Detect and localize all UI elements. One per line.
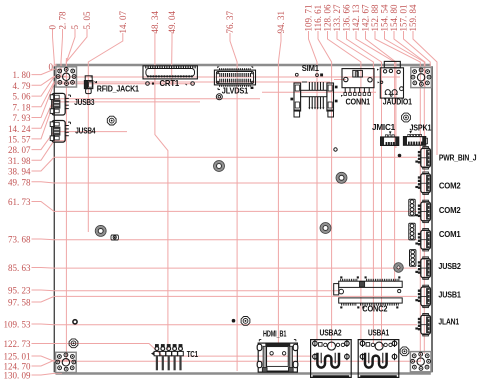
dimension line 0 (top) xyxy=(53,29,55,65)
connector COM1 xyxy=(416,229,431,251)
svg-text:USBA1: USBA1 xyxy=(368,329,389,338)
svg-text:CONN1: CONN1 xyxy=(346,98,371,107)
svg-text:HDMI_B1: HDMI_B1 xyxy=(263,330,287,339)
screw nut N4 xyxy=(400,347,409,356)
dimension line 109.53 (left) xyxy=(32,323,418,326)
svg-text:0: 0 xyxy=(49,62,54,72)
connector PWR_BIN_J xyxy=(416,147,431,169)
svg-text:159. 84: 159. 84 xyxy=(408,4,418,32)
dimension line 130.09 (left) xyxy=(32,373,63,375)
connector JMIC1 xyxy=(381,131,399,145)
via V4 xyxy=(398,154,401,157)
connector JSPK1 xyxy=(404,131,428,145)
dimension line 15.57 (left) xyxy=(32,102,201,139)
dimension line 122.73 (left) xyxy=(32,344,317,357)
svg-text:7. 18: 7. 18 xyxy=(13,102,32,112)
svg-text:157. 01: 157. 01 xyxy=(399,5,409,32)
svg-text:15. 57: 15. 57 xyxy=(8,135,31,145)
svg-text:130. 09: 130. 09 xyxy=(4,371,32,381)
dimension line 142.67 (top) xyxy=(366,31,396,148)
mounting hole H1 xyxy=(216,94,222,100)
dimension line 14.24 (left) xyxy=(32,99,261,128)
connector RFID_JACK1 xyxy=(84,76,96,94)
svg-text:5. 06: 5. 06 xyxy=(13,92,32,102)
svg-text:0: 0 xyxy=(48,25,58,30)
mounting hole H2 xyxy=(214,161,225,172)
dimension line 61.73 (left) xyxy=(32,202,418,212)
svg-text:154. 80: 154. 80 xyxy=(389,4,399,32)
header J header A xyxy=(409,199,415,216)
dimension line 95.23 (left) xyxy=(32,289,341,292)
svg-text:49. 78: 49. 78 xyxy=(8,177,31,187)
dimension line 157.01 (top) xyxy=(404,31,431,68)
svg-text:133. 27: 133. 27 xyxy=(332,4,342,32)
svg-text:152. 88: 152. 88 xyxy=(370,4,380,32)
svg-text:85. 63: 85. 63 xyxy=(8,263,31,273)
audio jack JK_TL top-left xyxy=(56,67,77,87)
connector CRT1 xyxy=(143,66,197,85)
dimension line 124.70 (left) xyxy=(32,360,73,366)
svg-text:125. 01: 125. 01 xyxy=(4,352,31,362)
svg-text:CONC2: CONC2 xyxy=(362,305,388,314)
dimension line 5.05 (top) xyxy=(66,29,87,62)
svg-text:JUSB4: JUSB4 xyxy=(75,127,96,136)
screw nut N5 xyxy=(241,317,250,326)
screw nut N2 xyxy=(402,113,411,122)
audio jack JK_BR bottom-right xyxy=(410,352,431,372)
svg-text:48. 34: 48. 34 xyxy=(150,11,160,34)
svg-text:COM1: COM1 xyxy=(439,230,461,239)
header TC1 xyxy=(151,344,183,370)
dimension line 4.79 (left) xyxy=(32,76,68,85)
svg-text:JUSB1: JUSB1 xyxy=(438,290,461,299)
svg-text:RFID_JACK1: RFID_JACK1 xyxy=(97,85,140,94)
svg-text:142. 67: 142. 67 xyxy=(361,4,371,32)
svg-text:4. 79: 4. 79 xyxy=(13,81,32,91)
svg-text:136. 66: 136. 66 xyxy=(342,4,352,32)
connector JUSB1 xyxy=(416,285,431,307)
dimension line 116.61 (top) xyxy=(318,31,332,347)
header J header C xyxy=(410,250,416,267)
connector JUSB2 xyxy=(416,257,431,279)
svg-text:154. 54: 154. 54 xyxy=(380,4,390,32)
svg-text:109. 71: 109. 71 xyxy=(304,5,314,32)
dimension line 28.07 (left) xyxy=(32,132,128,150)
via V2 xyxy=(73,320,77,324)
svg-text:28. 07: 28. 07 xyxy=(8,145,31,155)
svg-text:2. 78: 2. 78 xyxy=(58,11,68,30)
svg-text:JLAN1: JLAN1 xyxy=(438,317,459,326)
connector SIM1 xyxy=(291,73,337,117)
board outline xyxy=(54,65,432,374)
header J header B xyxy=(409,223,415,240)
svg-text:122. 73: 122. 73 xyxy=(4,339,32,349)
svg-text:14. 24: 14. 24 xyxy=(8,124,31,134)
svg-text:61. 73: 61. 73 xyxy=(8,197,31,207)
screw nut N3 xyxy=(69,339,78,348)
dimension line 7.93 (left) xyxy=(32,84,195,118)
dimension line 133.27 (top) xyxy=(337,31,373,343)
dimension line 7.18 (left) xyxy=(32,82,331,107)
dimension line 142.13 (top) xyxy=(356,31,395,282)
connector JLVDS1 xyxy=(214,67,255,90)
audio jack JK_TR top-right xyxy=(411,67,432,87)
svg-text:142. 13: 142. 13 xyxy=(351,4,361,32)
svg-text:95. 23: 95. 23 xyxy=(8,286,31,296)
svg-text:5: 5 xyxy=(70,25,80,30)
svg-text:JLVDS1: JLVDS1 xyxy=(222,86,249,95)
svg-text:JMIC1: JMIC1 xyxy=(372,123,396,132)
via V5 xyxy=(232,319,235,322)
connector USBA2 xyxy=(311,340,352,378)
dimension line 152.88 (top) xyxy=(375,31,420,361)
mounting hole H5 xyxy=(320,223,331,234)
dimension line 73.68 (left) xyxy=(32,238,418,241)
dimension line 2.78 (top) xyxy=(61,29,63,77)
dimension line 76.37 (top) xyxy=(230,33,237,371)
dimension line 154.80 (top) xyxy=(394,31,425,88)
dimension line 154.54 (top) xyxy=(385,31,425,354)
svg-text:TC1: TC1 xyxy=(187,350,199,359)
dimension line 1.80 (left) xyxy=(32,69,63,74)
dimension line 31.98 (left) xyxy=(32,141,67,161)
svg-text:JAUDIO1: JAUDIO1 xyxy=(383,98,413,107)
connector JUSB3 xyxy=(50,93,70,115)
wire dim leader segment a xyxy=(262,91,376,93)
svg-text:109. 53: 109. 53 xyxy=(4,320,32,330)
dimension line 5.05 vertical xyxy=(65,58,67,362)
dimension line 49.78 (left) xyxy=(32,182,418,183)
svg-text:JUSB2: JUSB2 xyxy=(438,262,461,271)
dimension line 136.66 (top) xyxy=(347,31,382,347)
dimension line 5 (top) xyxy=(66,29,75,77)
svg-text:CRT1: CRT1 xyxy=(160,79,180,88)
svg-text:JSPK1: JSPK1 xyxy=(410,123,432,132)
connector USBA1 xyxy=(358,340,399,378)
svg-text:31. 98: 31. 98 xyxy=(8,156,31,166)
connector JLAN1 xyxy=(416,314,431,336)
connector CONN1 xyxy=(341,69,374,97)
dimension line 97.58 (left) xyxy=(32,296,418,302)
dimension line 109.71 (top) xyxy=(309,31,318,341)
svg-text:COM2: COM2 xyxy=(439,182,461,191)
connector COM2 upper xyxy=(416,172,431,194)
svg-text:116. 61: 116. 61 xyxy=(313,5,323,32)
screw nut N1 xyxy=(107,116,116,125)
connector COM2 lower xyxy=(416,200,431,222)
mounting hole H6 xyxy=(394,263,403,272)
connector JUSB4 xyxy=(50,121,70,143)
dimension line 48.34 (top) xyxy=(155,33,168,349)
svg-text:COM2: COM2 xyxy=(439,206,461,215)
nut N6 xyxy=(111,235,118,240)
dimension line 159.84 (top) xyxy=(413,31,437,155)
dimension line 5.06 (left) xyxy=(32,77,401,96)
svg-text:94. 31: 94. 31 xyxy=(276,11,286,34)
svg-text:SIM1: SIM1 xyxy=(302,64,320,73)
svg-text:1. 80: 1. 80 xyxy=(13,70,32,80)
svg-text:JUSB3: JUSB3 xyxy=(74,98,95,107)
svg-text:76. 37: 76. 37 xyxy=(225,10,235,33)
svg-text:5. 05: 5. 05 xyxy=(82,11,92,30)
svg-text:73. 68: 73. 68 xyxy=(8,235,31,245)
connector JAUDIO1 xyxy=(377,61,404,98)
dimension line 0 (left) xyxy=(54,65,58,67)
dimension line 94.31 (top) xyxy=(278,33,281,343)
connector CONC2 xyxy=(334,277,403,309)
svg-text:49. 04: 49. 04 xyxy=(167,11,177,34)
via V3 xyxy=(334,148,337,151)
dimension line 14.07 (top) xyxy=(88,33,123,232)
audio jack JK_BL bottom-left xyxy=(56,352,77,372)
wire dim leader segment b xyxy=(334,79,346,81)
mounting hole H3 xyxy=(336,172,347,183)
svg-text:38. 94: 38. 94 xyxy=(8,167,31,177)
dimension line 49.04 (top) xyxy=(171,33,173,85)
svg-text:97. 58: 97. 58 xyxy=(8,298,31,308)
dimension line 85.63 (left) xyxy=(32,267,418,270)
dimension line 125.01 (left) xyxy=(32,356,422,361)
svg-text:14. 07: 14. 07 xyxy=(118,11,128,34)
svg-text:PWR_BIN_J: PWR_BIN_J xyxy=(439,154,477,163)
connector HDMI_B1 xyxy=(257,340,298,373)
dimension line 38.94 (left) xyxy=(32,157,418,171)
svg-text:128. 06: 128. 06 xyxy=(323,4,333,32)
mounting hole H4 xyxy=(95,226,106,237)
dimension line 128.06 (top) xyxy=(328,31,361,341)
svg-text:USBA2: USBA2 xyxy=(320,329,343,338)
svg-text:7. 93: 7. 93 xyxy=(13,113,32,123)
